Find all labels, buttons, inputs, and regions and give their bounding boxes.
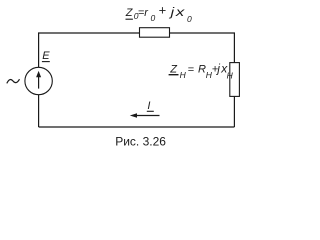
wire top-left: from source top up and right to resistor Z0 [39, 33, 140, 67]
svg-text:j: j [168, 5, 175, 19]
resistor ZH (load impedance box on right wire) [230, 63, 240, 97]
svg-text:0: 0 [187, 14, 192, 24]
wire bottom-left: from bottom wire up to source bottom [38, 95, 40, 127]
underline of E [42, 61, 50, 63]
svg-text:R: R [198, 64, 206, 76]
svg-text:H: H [227, 70, 234, 80]
svg-text:x: x [175, 6, 185, 19]
current arrow (pointing left) [136, 115, 160, 117]
underline of I [147, 110, 154, 112]
underline of Z0 [126, 18, 133, 20]
svg-text:Рис. 3.26: Рис. 3.26 [115, 135, 166, 149]
source arrow (EMF direction, up) [38, 76, 40, 88]
source E (circle of EMF source) [25, 67, 52, 94]
svg-text:Z: Z [169, 64, 178, 76]
svg-text:Z: Z [125, 7, 134, 19]
underline of ZH [169, 74, 179, 76]
svg-text:=: = [188, 64, 194, 76]
svg-text:H: H [180, 70, 187, 80]
label Z0 = r0 + jx0 [125, 3, 192, 24]
AC tilde symbol [7, 79, 20, 83]
wire right-bottom: from load bottom to bottom-right corner [233, 96, 235, 127]
svg-text:0: 0 [151, 13, 156, 23]
label ZH = RH + jxH [169, 62, 233, 81]
resistor Z0 (series impedance box on top wire) [140, 28, 170, 38]
wire top-right: from resistor Z0 to top-right corner down to load top [170, 33, 235, 63]
svg-text:E: E [42, 50, 50, 62]
wire bottom: bottom return wire [39, 126, 235, 128]
svg-text:r: r [144, 7, 149, 19]
svg-text:+: + [159, 3, 167, 18]
svg-text:I: I [147, 100, 150, 112]
